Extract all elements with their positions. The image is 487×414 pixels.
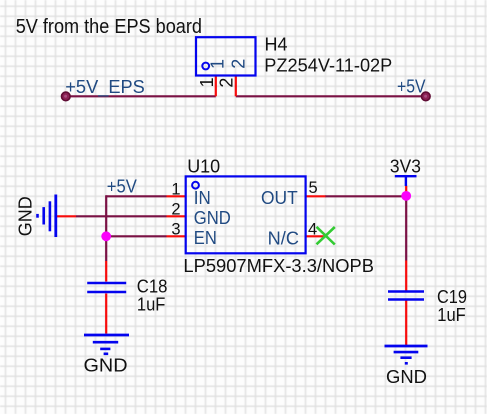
svg-text:2: 2	[228, 59, 248, 69]
svg-text:5V from the EPS board: 5V from the EPS board	[16, 16, 202, 38]
svg-text:2: 2	[171, 201, 180, 219]
svg-text:5: 5	[309, 179, 318, 197]
svg-text:+5V: +5V	[107, 177, 137, 197]
svg-text:IN: IN	[194, 188, 211, 208]
svg-text:2: 2	[217, 78, 237, 88]
svg-text:3V3: 3V3	[390, 156, 421, 176]
svg-text:+5V_EPS: +5V_EPS	[65, 77, 145, 98]
svg-text:EN: EN	[194, 228, 217, 248]
svg-text:GND: GND	[194, 208, 231, 228]
svg-text:GND: GND	[386, 367, 427, 387]
svg-text:1: 1	[171, 181, 180, 199]
svg-text:+5V: +5V	[397, 76, 426, 96]
svg-text:1: 1	[208, 59, 228, 69]
svg-text:OUT: OUT	[261, 188, 298, 208]
svg-text:LP5907MFX-3.3/NOPB: LP5907MFX-3.3/NOPB	[183, 256, 374, 276]
svg-text:1uF: 1uF	[437, 305, 466, 325]
svg-text:C18: C18	[137, 276, 168, 296]
svg-text:PZ254V-11-02P: PZ254V-11-02P	[264, 56, 392, 76]
svg-text:N/C: N/C	[268, 228, 299, 248]
svg-text:3: 3	[171, 221, 180, 239]
svg-text:H4: H4	[265, 35, 288, 55]
svg-text:1: 1	[197, 77, 217, 87]
svg-text:U10: U10	[187, 157, 220, 177]
svg-text:C19: C19	[437, 287, 467, 307]
svg-text:GND: GND	[84, 356, 128, 376]
svg-text:4: 4	[308, 220, 317, 238]
svg-text:GND: GND	[16, 196, 36, 236]
svg-text:1uF: 1uF	[137, 295, 166, 315]
